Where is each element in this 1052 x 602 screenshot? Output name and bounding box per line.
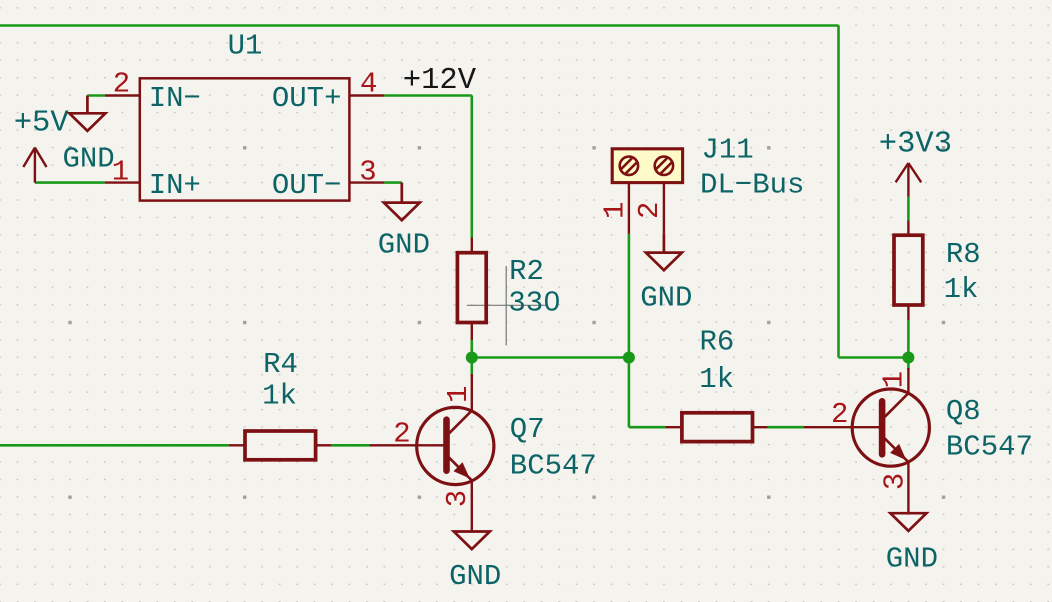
R8 pin bottom: [907, 305, 909, 320]
svg-text:3: 3: [879, 473, 912, 490]
svg-text:IN−: IN−: [149, 82, 201, 115]
resistor R2: [457, 253, 486, 323]
svg-text:GND: GND: [449, 560, 501, 593]
svg-text:Q8: Q8: [946, 395, 981, 428]
U1 pin 3: [349, 181, 384, 183]
wire +5V to U1 pin1: [35, 181, 105, 184]
wire R4 to Q7 base: [331, 444, 369, 447]
svg-text:1: 1: [442, 386, 475, 403]
svg-text:BC547: BC547: [946, 431, 1033, 464]
wire U1 pin3 to GND: [384, 181, 402, 184]
svg-text:3: 3: [441, 490, 474, 507]
J11 pin 1: [628, 184, 630, 234]
U1 pin 4: [349, 94, 384, 96]
svg-text:+12V: +12V: [403, 64, 477, 98]
svg-text:1: 1: [599, 202, 632, 219]
svg-text:2: 2: [831, 398, 848, 431]
svg-text:OUT+: OUT+: [272, 82, 342, 115]
svg-text:R2: R2: [509, 255, 544, 288]
transistor Q7: [369, 374, 494, 532]
svg-text:1k: 1k: [699, 363, 734, 396]
wire Q8 collector stub: [907, 358, 910, 371]
wire left to R4: [0, 444, 229, 447]
R4 pin right: [316, 444, 332, 446]
ground symbol G4: [454, 532, 490, 550]
wire to Q8 collector node: [839, 356, 909, 359]
ground symbol G5: [890, 513, 926, 531]
svg-text:Q7: Q7: [510, 413, 545, 446]
power +3V3 symbol: [896, 163, 922, 197]
U1 pin 1: [105, 181, 140, 183]
svg-text:R8: R8: [946, 238, 981, 271]
resistor R4: [245, 431, 316, 460]
wire R6 to Q8 base: [768, 426, 804, 429]
wire R2 bottom to node: [470, 340, 473, 358]
svg-text:1k: 1k: [262, 380, 297, 413]
wire right vertical: [837, 26, 840, 358]
R6 pin left: [665, 426, 682, 428]
R4 pin left: [229, 444, 245, 446]
power +5V symbol: [23, 148, 46, 183]
svg-text:GND: GND: [378, 228, 430, 261]
wire +12V from U1 pin4: [384, 94, 472, 97]
J11 screw terminal 2: [655, 157, 673, 175]
wire down to R2: [470, 96, 473, 238]
svg-text:+5V: +5V: [14, 107, 70, 141]
J11 pin 2: [663, 184, 665, 234]
ground symbol G1: [69, 96, 105, 131]
R8 pin top: [907, 221, 909, 236]
op-amp U1 body: [140, 78, 350, 200]
svg-text:GND: GND: [886, 543, 938, 576]
U1 pin 2: [105, 94, 140, 96]
J11 screw terminal 1: [620, 157, 638, 175]
resistor R6: [682, 413, 753, 442]
svg-text:J11: J11: [702, 134, 754, 167]
svg-text:IN+: IN+: [149, 169, 201, 202]
svg-text:BC547: BC547: [510, 449, 597, 482]
wire Q7 collector stub: [470, 358, 473, 377]
svg-text:R4: R4: [263, 348, 298, 381]
wire top horizontal: [0, 24, 839, 27]
wire U1 pin2 to GND: [87, 94, 104, 97]
svg-text:2: 2: [393, 418, 410, 451]
R2 pin top: [471, 238, 473, 253]
svg-text:OUT−: OUT−: [272, 169, 342, 202]
cursor crosshair: [467, 266, 547, 345]
connector J11 body: [612, 149, 682, 183]
wire node B down: [628, 358, 631, 428]
R2 pin bottom: [471, 323, 473, 341]
wire node A horizontal: [472, 356, 629, 359]
resistor R8: [894, 235, 923, 305]
junction node B: [623, 352, 635, 364]
junction node A: [466, 352, 478, 364]
svg-text:+3V3: +3V3: [879, 128, 952, 162]
junction node C: [902, 352, 914, 364]
svg-text:4: 4: [360, 67, 377, 100]
ground symbol G3: [646, 234, 682, 270]
wire to R6 left: [629, 426, 666, 429]
svg-text:2: 2: [633, 202, 666, 219]
svg-text:R6: R6: [699, 326, 734, 359]
svg-text:U1: U1: [228, 30, 263, 63]
svg-text:GND: GND: [640, 281, 692, 314]
svg-text:3: 3: [359, 155, 376, 188]
svg-text:GND: GND: [62, 142, 114, 175]
svg-text:1k: 1k: [944, 273, 979, 306]
R6 pin right: [753, 426, 768, 428]
wire R8 bottom to node: [907, 320, 910, 358]
svg-text:1: 1: [877, 371, 910, 388]
transistor Q8: [804, 368, 930, 513]
svg-text:DL−Bus: DL−Bus: [700, 169, 804, 202]
wire +3V3 to R8: [907, 197, 910, 221]
ground symbol G2: [384, 183, 420, 221]
wire J11 pin1 down: [628, 234, 631, 358]
svg-text:2: 2: [113, 67, 130, 100]
